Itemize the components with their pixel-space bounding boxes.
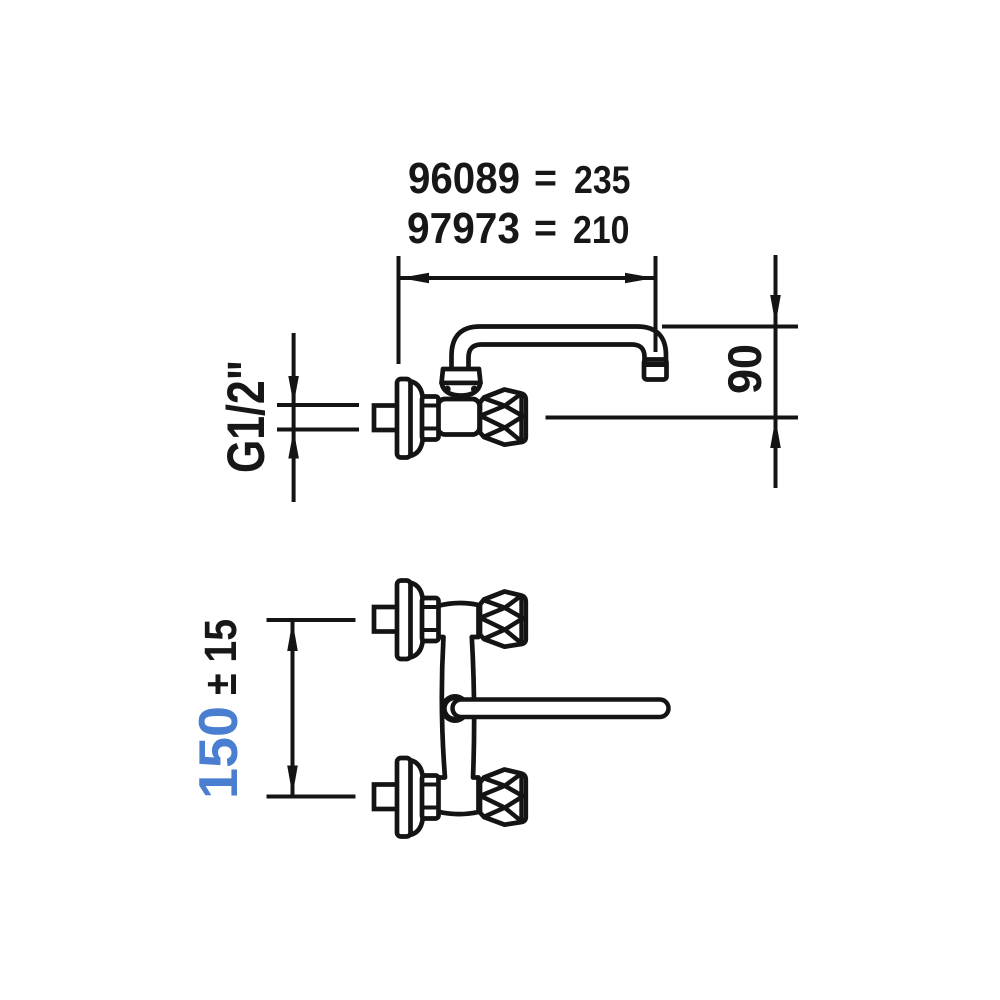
handle knob upper (bottom view) (480, 592, 526, 647)
nut pivot dot left (444, 386, 451, 393)
spout swivel joint ring (441, 694, 470, 723)
svg-text:235: 235 (574, 159, 631, 202)
G1/2 dimension line (292, 333, 296, 502)
dimension arrow right (625, 273, 654, 284)
spout tube (top view) (452, 327, 667, 371)
spout reach dimension line (400, 276, 654, 280)
dimension arrow left (400, 273, 429, 284)
handle knob (top view) (480, 390, 526, 445)
nut pivot dot right (471, 386, 478, 393)
svg-text:G1/2": G1/2" (217, 360, 276, 473)
90 dimension vertical line (774, 255, 778, 488)
svg-text:96089: 96089 (408, 154, 520, 203)
spout connection nut (442, 369, 481, 383)
150 dimension line (291, 620, 295, 797)
spout nozzle (644, 360, 667, 380)
svg-text:150: 150 (187, 706, 249, 799)
mixer body with necks and caps (438, 603, 479, 814)
handle knob lower (bottom view) (480, 770, 526, 825)
90 extension line bottom (546, 416, 799, 420)
wall fitting upper (bottom view) (374, 581, 439, 660)
svg-text:210: 210 (573, 209, 630, 252)
wall fitting (top view) (374, 379, 439, 458)
svg-text:97973: 97973 (407, 204, 520, 253)
svg-text:90: 90 (718, 344, 771, 394)
spout nut olive (442, 383, 481, 396)
valve body (top view) (438, 399, 480, 435)
90 extension line top (662, 325, 798, 329)
spout lever (plan view) (453, 700, 669, 718)
150 dimension extension lines (267, 618, 356, 622)
extension line left (397, 256, 401, 364)
wall fitting lower (bottom view) (374, 758, 439, 837)
svg-text:± 15: ± 15 (195, 619, 246, 695)
G1/2 extension lines (277, 403, 359, 407)
svg-text:=: = (534, 157, 557, 200)
extension line right (654, 256, 658, 352)
svg-text:=: = (534, 207, 557, 250)
